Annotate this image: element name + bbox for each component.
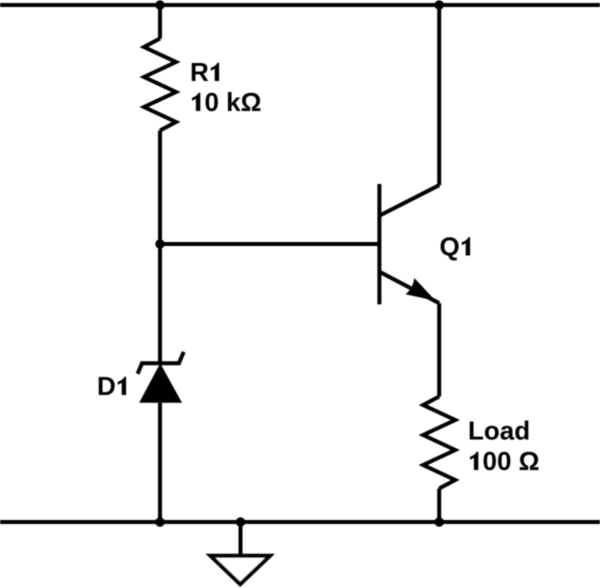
wire Q1 emitter to Load	[437, 303, 441, 396]
zener diode D1	[138, 352, 184, 403]
resistor R1	[144, 39, 176, 131]
svg-text:Load: Load	[468, 416, 530, 446]
svg-text:0 kΩ: 0 kΩ	[205, 87, 262, 117]
wire Q1 collector to top rail	[437, 5, 441, 185]
transistor Q1	[379, 184, 439, 304]
svg-text:00 Ω: 00 Ω	[483, 446, 540, 476]
node bottom right junction	[435, 517, 444, 526]
wire R1 to node B	[158, 131, 162, 245]
label Q1	[440, 232, 471, 262]
wire top rail to R1	[158, 5, 162, 39]
svg-text:R: R	[190, 57, 209, 87]
node B junction	[155, 239, 164, 248]
wire node B to Q1 base	[160, 242, 378, 246]
node bottom ground junction	[236, 517, 245, 526]
wire bottom rail to ground	[239, 522, 243, 555]
resistor Load	[423, 397, 455, 489]
value label 10 kOhm	[192, 87, 262, 117]
wire bottom rail	[0, 520, 600, 524]
svg-text:D: D	[97, 371, 116, 401]
ground	[211, 556, 271, 584]
wire node B to D1 cathode	[158, 244, 162, 363]
value label 100 Ohm	[470, 446, 540, 476]
node bottom left junction	[155, 517, 164, 526]
svg-text:Q: Q	[440, 232, 460, 262]
wire top rail	[0, 3, 600, 7]
node top left junction	[155, 0, 164, 9]
label R1	[190, 57, 219, 87]
wire Load to bottom rail	[437, 489, 441, 523]
node top right junction	[435, 0, 444, 9]
label D1	[97, 371, 126, 401]
wire D1 anode to bottom rail	[158, 403, 162, 522]
